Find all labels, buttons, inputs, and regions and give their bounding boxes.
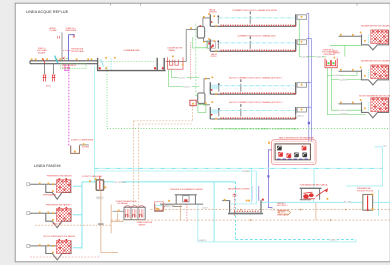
svg-text:LINEA FANGHI: LINEA FANGHI bbox=[34, 163, 61, 168]
red label biox bbox=[46, 86, 51, 88]
green line basin1 outlet down bbox=[299, 19, 326, 56]
pump station small red box left bbox=[154, 202, 163, 210]
thickener 3 bbox=[27, 241, 71, 260]
digester inlet bbox=[113, 210, 125, 212]
digester lower title bbox=[137, 221, 153, 226]
cyan header 3 (bright) bbox=[82, 181, 236, 183]
cyan vertical to final line bbox=[213, 182, 215, 242]
cyan recycle main bbox=[261, 201, 390, 203]
cyan corner text bbox=[384, 145, 388, 147]
centrifuge machine red bbox=[303, 189, 327, 199]
basin 3 bbox=[205, 77, 307, 95]
svg-text:STAZIONE SOLLEVAMENTO FANGHI: STAZIONE SOLLEVAMENTO FANGHI bbox=[170, 188, 203, 191]
white text box on orange line bbox=[271, 209, 274, 211]
cyan vertical from inlet works bbox=[94, 66, 96, 182]
svg-text:LIQUAMI: LIQUAMI bbox=[50, 29, 57, 32]
clarifier 1 title bbox=[361, 24, 390, 27]
thickener 2 bbox=[27, 209, 71, 228]
orange arrows on disposal lines bbox=[240, 209, 347, 222]
cyan header 1 bbox=[95, 167, 383, 169]
red leader dashes bbox=[63, 50, 71, 52]
svg-text:DENITRO: DENITRO bbox=[209, 12, 218, 14]
green riser dotted bbox=[106, 66, 108, 128]
orange dashed feeds to digesters bbox=[134, 106, 193, 208]
sludge pit bottom text box bbox=[96, 197, 103, 200]
lift station title bbox=[322, 48, 337, 55]
orange drop from pump station bbox=[180, 204, 182, 220]
red dashed drop from pump station bbox=[186, 204, 188, 222]
blower 1 (black) bbox=[277, 146, 282, 151]
title LINEA ACQUE REFLUE bbox=[26, 9, 69, 14]
cyan text on dashed header bbox=[329, 238, 338, 241]
blue feed left of room bbox=[268, 150, 272, 208]
svg-text:VASCA FANGHI DI SUPERO: VASCA FANGHI DI SUPERO bbox=[228, 187, 251, 190]
classifier green drains bbox=[169, 69, 200, 86]
basin 1 title bbox=[232, 9, 278, 12]
svg-text:INIZIALE: INIZIALE bbox=[38, 51, 46, 54]
bypass blue pipe bbox=[69, 34, 75, 61]
cyan dashed vertical through tank bbox=[235, 182, 237, 239]
blower 5 (red) bbox=[302, 146, 307, 151]
poly title bbox=[357, 187, 374, 192]
cyan loop at polyelectrolyte bbox=[346, 147, 382, 216]
red flow symbols on risers bbox=[58, 35, 75, 38]
magenta emergency tank title bbox=[71, 138, 94, 141]
lift station structure bbox=[325, 58, 337, 67]
red label with leader bbox=[71, 48, 84, 53]
svg-text:POLIELETTROLITA: POLIELETTROLITA bbox=[357, 189, 374, 192]
green skimmer line in grit chamber bbox=[100, 60, 157, 62]
basin 4 title bbox=[229, 101, 283, 104]
svg-text:DISSABBIATURA: DISSABBIATURA bbox=[124, 49, 141, 52]
svg-text:ACCUMULO: ACCUMULO bbox=[277, 204, 288, 207]
svg-text:SEDIMENTATORE SECONDARIO 1: SEDIMENTATORE SECONDARIO 1 bbox=[361, 24, 390, 27]
red text in green box bbox=[62, 64, 77, 69]
blower room title bbox=[279, 136, 315, 139]
svg-text:FANGHI: FANGHI bbox=[139, 223, 146, 226]
classifier yellow dots bbox=[172, 56, 183, 66]
pump station title bbox=[170, 188, 203, 191]
svg-text:SABBIE: SABBIE bbox=[169, 49, 176, 52]
cyan drop into tank B bbox=[255, 171, 257, 203]
red bits in unit bbox=[208, 42, 214, 47]
svg-text:FANGO ISP.: FANGO ISP. bbox=[53, 222, 63, 225]
cyan thickener return riser bbox=[73, 182, 82, 249]
grit chamber yellow dots bbox=[105, 57, 116, 69]
blower 3 (red) bbox=[287, 153, 292, 158]
pink dashed drain under thickener 3 bbox=[30, 256, 101, 258]
blower 6 (black) bbox=[302, 153, 307, 158]
cyan drop to centrifuge bbox=[312, 168, 315, 202]
svg-text:NUOVO COMPARTO BIOLOGICO LINEA: NUOVO COMPARTO BIOLOGICO LINEA ACQUE SUD… bbox=[229, 76, 283, 79]
lift station green fill marks bbox=[328, 62, 335, 64]
classifier title bbox=[167, 47, 183, 52]
cyan final effluent line bbox=[198, 204, 356, 242]
svg-text:SCARICO DI EMERGENZA: SCARICO DI EMERGENZA bbox=[71, 138, 94, 141]
smaltimento red text bbox=[0, 0, 1, 1]
svg-text:Q=1720 l/s: Q=1720 l/s bbox=[339, 113, 348, 115]
grey scarico text bbox=[98, 223, 104, 225]
poly tank bbox=[363, 193, 374, 211]
cyan air dashes in grit chamber bbox=[110, 59, 112, 70]
magenta pump symbol bbox=[64, 64, 70, 71]
svg-text:BIOX: BIOX bbox=[46, 86, 51, 88]
svg-text:NITRO: NITRO bbox=[211, 56, 217, 58]
svg-text:Q=860 l/s: Q=860 l/s bbox=[296, 115, 304, 117]
small basin outlet bbox=[163, 205, 182, 208]
grey text near base bbox=[202, 206, 209, 209]
red pump symbols bbox=[43, 75, 56, 82]
svg-text:AL FIUME TEVERE (A DEPURAZIONE: AL FIUME TEVERE (A DEPURAZIONE E TRATTAM… bbox=[214, 128, 299, 131]
svg-text:SCARICO: SCARICO bbox=[198, 239, 207, 242]
sludge pit red feed bbox=[99, 176, 101, 188]
grit chamber red corner marks bbox=[99, 67, 164, 69]
svg-text:PORTATA: PORTATA bbox=[62, 66, 71, 69]
svg-text:LINEA ACQUE REFLUE: LINEA ACQUE REFLUE bbox=[26, 9, 69, 14]
clarifier 3 title bbox=[359, 95, 390, 98]
basin 2 bbox=[203, 36, 307, 51]
svg-text:COMPARTO BIOLOGICO LINEA ACQUE: COMPARTO BIOLOGICO LINEA ACQUE bbox=[237, 34, 276, 37]
blower room inner building bbox=[275, 144, 310, 160]
long green return header bbox=[107, 128, 388, 130]
svg-text:SCARICO: SCARICO bbox=[329, 238, 338, 241]
sludge pit tank bbox=[89, 178, 106, 190]
svg-text:Q=430 l/s: Q=430 l/s bbox=[301, 56, 309, 58]
cyan skimmer blade bbox=[101, 59, 104, 67]
svg-text:Q=860 l/s: Q=860 l/s bbox=[339, 110, 347, 112]
green small unit bbox=[207, 41, 215, 48]
clarifier 1 side label bbox=[334, 51, 341, 55]
blue valve tick bbox=[308, 122, 310, 125]
sand classifier red unit bbox=[168, 57, 183, 69]
basin 2 title bbox=[237, 34, 276, 37]
svg-text:SALA COMPRESSORI CENTRALE ARIA: SALA COMPRESSORI CENTRALE ARIA bbox=[279, 136, 315, 139]
small red left-edge label bbox=[82, 146, 90, 149]
svg-text:EMERGENZA: EMERGENZA bbox=[66, 29, 78, 32]
frame tick marks bbox=[111, 3, 358, 5]
digester battery bbox=[124, 206, 145, 220]
red screen mark in channel bbox=[43, 58, 45, 64]
svg-text:Q=430 l/s: Q=430 l/s bbox=[334, 75, 342, 77]
svg-text:Q=15 l/s: Q=15 l/s bbox=[183, 86, 190, 88]
red label scarico emergenza bbox=[66, 27, 78, 32]
green effluent text bbox=[214, 128, 299, 131]
digester title bbox=[116, 200, 138, 205]
sludge pit tank title bbox=[82, 175, 103, 178]
centrifuge title bbox=[300, 184, 328, 187]
magenta drain line bbox=[68, 72, 70, 146]
cyan header 2 bbox=[95, 170, 257, 172]
svg-text:SUPERNATANTE: SUPERNATANTE bbox=[43, 194, 57, 197]
small red pit bbox=[190, 100, 196, 106]
inlet riser pipe bbox=[61, 33, 63, 61]
svg-text:RIC.: RIC. bbox=[384, 145, 388, 147]
svg-text:NUOVO COMPARTO BIOLOGICO LINEA: NUOVO COMPARTO BIOLOGICO LINEA ACQUE SUD… bbox=[229, 101, 283, 104]
splitter2 outlets bbox=[204, 79, 210, 105]
green discharge lines from lift station bbox=[327, 45, 366, 114]
cyan recycle texts bbox=[344, 200, 351, 203]
small instrument marks on channel bbox=[63, 57, 68, 61]
grit chamber walls bbox=[97, 58, 166, 71]
smaltimento arrow bbox=[279, 210, 290, 215]
centrifuge table bbox=[300, 188, 322, 200]
thickener 1 bbox=[27, 180, 71, 200]
blue air manifold in room bbox=[277, 158, 309, 160]
basin 1 left label bbox=[209, 8, 218, 13]
basin 1 bbox=[203, 11, 307, 26]
splitter1 outlets to basins bbox=[203, 18, 210, 41]
thickener 2 title bbox=[46, 203, 72, 206]
blower room outer enclosure bbox=[272, 140, 316, 165]
clarifier 2 bbox=[339, 65, 389, 85]
splitter1 green pipes bbox=[193, 24, 208, 96]
svg-text:DEI FANGHI: DEI FANGHI bbox=[118, 202, 129, 205]
splitter2 green box below bbox=[198, 105, 206, 113]
pump station table bbox=[160, 195, 203, 204]
svg-text:BY-PASS: BY-PASS bbox=[82, 146, 90, 149]
blower 2 (red) bbox=[278, 152, 283, 157]
centrifuge yellow dot bbox=[327, 198, 329, 200]
splitter2 green stub bbox=[196, 95, 198, 97]
red label arrivo liquami bbox=[50, 27, 57, 32]
thickener 3 title bbox=[43, 235, 75, 238]
basin 2 bottom label bbox=[211, 53, 218, 58]
svg-text:Q=430 l/s: Q=430 l/s bbox=[340, 79, 348, 81]
svg-text:PREISPESSITORE FANGHI 2: PREISPESSITORE FANGHI 2 bbox=[46, 203, 72, 206]
svg-text:PREISPESSITORE FANGHI 1: PREISPESSITORE FANGHI 1 bbox=[47, 175, 73, 178]
yellow dot on splitter feed bbox=[190, 27, 192, 29]
clarifier 1 bbox=[339, 30, 389, 50]
svg-text:FANGHI: FANGHI bbox=[334, 52, 341, 55]
splitter1 red dots bbox=[200, 25, 202, 27]
storage tank red text block bbox=[277, 202, 288, 216]
svg-text:GROSSOLANA: GROSSOLANA bbox=[71, 50, 84, 53]
cyan drop into tank A bbox=[251, 168, 253, 203]
grit chamber title bbox=[124, 49, 141, 52]
cyan text on final line bbox=[198, 239, 207, 242]
cyan fine screen mark bbox=[55, 56, 58, 64]
inlet channel walls bbox=[30, 61, 97, 64]
svg-text:COMPARTO BIOLOGICO LINEA ACQUE: COMPARTO BIOLOGICO LINEA ACQUE NORD bbox=[232, 9, 278, 12]
screw pumps risers bbox=[45, 64, 54, 74]
svg-text:Q=860 l/s: Q=860 l/s bbox=[316, 56, 324, 58]
thickener 1 label bbox=[43, 194, 57, 197]
blue air main from basins to blowers bbox=[307, 14, 312, 142]
svg-text:SURNAT.: SURNAT. bbox=[242, 170, 250, 173]
red dashed vertical at tank bbox=[233, 194, 235, 216]
svg-text:FANGO DIG.: FANGO DIG. bbox=[166, 205, 176, 208]
cyan text on header bbox=[114, 181, 127, 184]
outlet channel to splitter bbox=[166, 30, 198, 62]
svg-text:Q=95 l/s: Q=95 l/s bbox=[202, 207, 208, 209]
green flow text box 1 bbox=[301, 55, 309, 58]
svg-text:NUOVO PREISPESSITORE FANGHI: NUOVO PREISPESSITORE FANGHI bbox=[43, 235, 75, 238]
emergency tank bbox=[71, 145, 80, 153]
basin 3 title bbox=[229, 76, 283, 79]
lift station yellow dot bbox=[334, 57, 336, 59]
svg-text:DISIDRATAZIONE MECCANICA: DISIDRATAZIONE MECCANICA bbox=[300, 184, 328, 187]
small sludge basin bbox=[155, 204, 163, 212]
blower 4 (grey) bbox=[294, 153, 299, 158]
title LINEA FANGHI bbox=[34, 163, 61, 168]
clarifier 3 bbox=[339, 98, 389, 118]
cyan text on header1 bbox=[242, 170, 250, 173]
thickener 1 title bbox=[47, 175, 73, 178]
storage tank title bbox=[228, 187, 251, 190]
yellow mark at room corner bbox=[268, 142, 270, 144]
green flow text box 2 bbox=[316, 55, 324, 58]
red dashed vent bbox=[189, 42, 191, 80]
cyan dashed discharge header bbox=[236, 238, 356, 240]
svg-text:RIC. 600: RIC. 600 bbox=[344, 201, 351, 203]
blue drops into storage tank bbox=[252, 186, 259, 201]
channel yellow instrument dots bbox=[31, 58, 92, 60]
red marks above tank bbox=[233, 194, 237, 196]
clarifier 2 title bbox=[361, 59, 390, 62]
red oval label stazione sollevamento iniziale bbox=[37, 47, 48, 54]
svg-text:FANGO: FANGO bbox=[97, 197, 104, 200]
svg-text:RIC. SUPERN.: RIC. SUPERN. bbox=[114, 182, 127, 184]
svg-text:Q=15 l/s: Q=15 l/s bbox=[178, 77, 185, 79]
green text boxes on lift lines bbox=[334, 74, 342, 77]
emergency tank outlet bbox=[80, 143, 89, 145]
orange sludge drain left bbox=[35, 190, 123, 252]
green dashed degritter box bbox=[61, 64, 87, 69]
basin 4 bbox=[205, 101, 307, 119]
svg-text:SEDIMENTATORE SECONDARIO 2: SEDIMENTATORE SECONDARIO 2 bbox=[361, 59, 390, 62]
